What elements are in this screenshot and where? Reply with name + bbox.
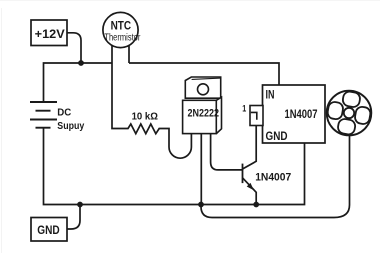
wire fan to ground bypass	[201, 134, 350, 218]
wire top rail left segment	[44, 63, 113, 102]
node emitter junction dot	[253, 202, 259, 208]
wire NTC lead 1	[111, 40, 113, 63]
node GND-tap junction dot	[77, 202, 83, 208]
svg-text:Thermistor: Thermistor	[104, 32, 140, 43]
svg-text:GND: GND	[37, 223, 60, 237]
svg-text:10 kΩ: 10 kΩ	[132, 110, 158, 122]
wire Q1 right leg to Q2 base	[211, 134, 243, 170]
svg-text:1N4007: 1N4007	[255, 172, 291, 184]
emitter	[243, 178, 257, 205]
diode module U1 1N4007 box	[263, 85, 326, 143]
power source V1 +12V	[31, 20, 67, 46]
connector J1 pin 1	[242, 103, 263, 125]
thermistor TH1 NTC	[103, 12, 141, 47]
transistor Q2 symbol (labelled 1N4007)	[243, 126, 292, 205]
emitter arrow	[247, 183, 254, 190]
ground GND box	[31, 218, 67, 242]
svg-text:Supuy: Supuy	[57, 120, 84, 132]
svg-text:NTC: NTC	[111, 21, 132, 33]
wire top rail right segment to regulator IN	[129, 63, 279, 85]
transistor Q1 2N2222 TO-220 package	[183, 77, 222, 134]
battery BT1 DC supply	[30, 102, 84, 132]
resistor R1 10 kOhm with lead from NTC and U-loop to Q1 left leg	[112, 63, 191, 158]
wire GND box to ground rail	[67, 205, 80, 230]
svg-text:2N2222: 2N2222	[188, 108, 220, 120]
collector	[243, 126, 257, 170]
wire NTC lead 2	[128, 40, 130, 63]
svg-text:1: 1	[242, 103, 246, 113]
node A junction dot	[78, 60, 84, 66]
wire +12V to node A	[67, 33, 81, 63]
svg-text:IN: IN	[266, 88, 275, 102]
svg-text:GND: GND	[266, 129, 288, 143]
svg-text:1N4007: 1N4007	[285, 107, 318, 121]
svg-text:DC: DC	[57, 106, 71, 118]
wire battery negative to ground rail and up to regulator GND	[44, 128, 305, 205]
wire Q1 middle leg to ground rail	[200, 134, 202, 205]
fan M1	[327, 91, 372, 136]
svg-text:+12V: +12V	[35, 29, 65, 41]
node base-leg junction dot	[198, 202, 204, 208]
base bar	[242, 164, 244, 184]
